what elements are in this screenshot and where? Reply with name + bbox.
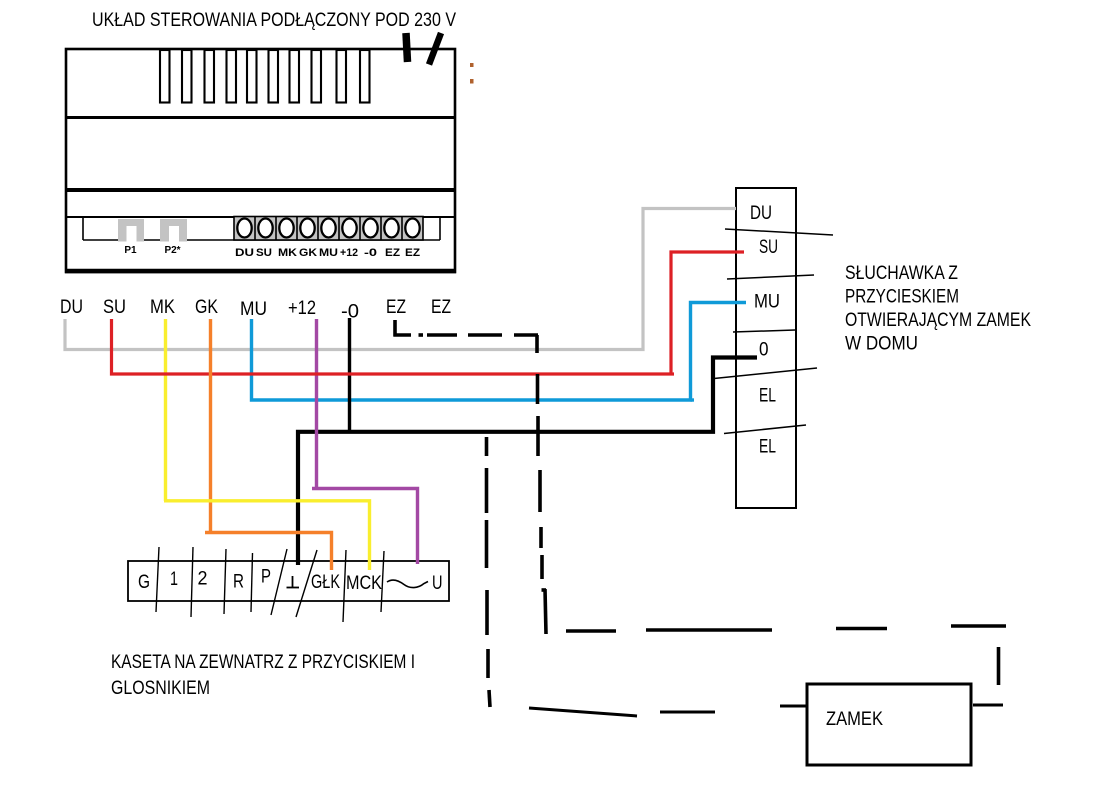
svg-text:0: 0 — [759, 340, 769, 361]
svg-text:SU: SU — [759, 237, 778, 258]
handset divider DU/SU — [725, 229, 833, 235]
terminal pin labels DU SU MK GK MU +12 -0 EZ EZ — [235, 247, 420, 259]
svg-text:GK: GK — [195, 297, 218, 318]
svg-text:EZ: EZ — [405, 247, 420, 259]
svg-text:OTWIERAJĄCYM ZAMEK: OTWIERAJĄCYM ZAMEK — [845, 310, 1031, 331]
svg-text:SU: SU — [103, 297, 126, 318]
svg-text:1: 1 — [170, 569, 178, 590]
control unit U1 outer box — [65, 49, 456, 272]
svg-text:DU: DU — [60, 297, 83, 318]
handset divider SU/MU — [727, 275, 814, 279]
connector P2 tab — [160, 219, 187, 242]
svg-text:-0: -0 — [364, 247, 377, 259]
wire GK orange vertical segment — [209, 319, 212, 534]
handset description text — [845, 263, 1031, 355]
wire MK yellow horizontal run — [164, 501, 370, 570]
ZAMEK lock box — [807, 684, 971, 765]
svg-text:MU: MU — [240, 299, 267, 320]
svg-text:P: P — [261, 567, 271, 588]
kaseta terminal labels — [138, 567, 443, 595]
kaseta divider GLK/MCK — [343, 550, 346, 622]
kaseta divider MCK/~ — [381, 551, 384, 612]
control unit vent slats — [160, 50, 370, 103]
svg-text:DU: DU — [235, 247, 254, 259]
connector P1 tab — [118, 219, 144, 242]
svg-text:PRZYCIESKIEM: PRZYCIESKIEM — [845, 287, 959, 308]
handset terminal box — [736, 188, 796, 508]
svg-text:U: U — [432, 573, 443, 594]
wire SU red — [112, 252, 745, 374]
svg-text:P1: P1 — [124, 245, 137, 256]
wire EZ dash-dot run — [394, 320, 539, 337]
svg-text:GK: GK — [299, 247, 317, 259]
kaseta divider P/gnd — [271, 549, 287, 615]
svg-text:EL: EL — [759, 437, 776, 458]
230V mains stroke N — [429, 33, 441, 65]
ground symbol in kaseta — [287, 576, 300, 588]
kaseta terminal strip box — [128, 561, 449, 601]
wire EZ dashed vertical to ZAMEK — [537, 335, 546, 634]
svg-text:ZAMEK: ZAMEK — [826, 709, 883, 730]
kaseta caption text — [111, 652, 415, 699]
svg-text:GLOSNIKIEM: GLOSNIKIEM — [111, 678, 210, 699]
svg-text:R: R — [233, 572, 244, 593]
svg-text:MU: MU — [754, 292, 780, 313]
svg-text:+12: +12 — [340, 247, 358, 259]
svg-text:MU: MU — [319, 247, 338, 259]
svg-text:G: G — [138, 572, 150, 593]
wire EZ dashed horizontal to ZAMEK right — [566, 626, 1006, 685]
svg-text:DU: DU — [750, 203, 772, 224]
brown colon mark — [470, 63, 474, 84]
terminal strip inset — [83, 217, 440, 240]
wire name labels row — [60, 297, 451, 323]
wire +12 purple — [312, 319, 418, 564]
wire GK orange horizontal run — [205, 533, 332, 571]
wire 0/EL black net — [298, 358, 757, 566]
svg-text:SŁUCHAWKA Z: SŁUCHAWKA Z — [845, 263, 958, 284]
kaseta divider R/P — [251, 553, 253, 612]
wire ZAMEK right lead — [973, 704, 1003, 707]
AC squiggle in kaseta — [387, 580, 428, 588]
wire MU blue — [252, 303, 747, 401]
svg-text:EZ: EZ — [431, 297, 451, 318]
screw terminal block (9 screws) — [234, 217, 423, 241]
wire ZAMEK left lead — [780, 705, 808, 708]
kaseta divider gnd/GLK — [296, 550, 317, 617]
svg-text:MK: MK — [150, 297, 175, 318]
handset divider MU/0 — [733, 330, 795, 332]
kaseta divider G/1 — [156, 547, 159, 612]
control unit inner horizontal line 2 — [67, 188, 454, 192]
svg-text:GŁK: GŁK — [311, 572, 340, 593]
kaseta divider 2/R — [224, 549, 226, 614]
svg-text:EZ: EZ — [385, 247, 400, 259]
svg-text:MK: MK — [278, 247, 297, 259]
svg-text:2: 2 — [198, 569, 208, 590]
wire EZ2 dashed vertical — [487, 437, 491, 707]
handset divider 0/EL — [714, 368, 817, 379]
kaseta divider 1/2 — [191, 547, 193, 617]
wire DU gray — [65, 209, 736, 350]
control unit inner horizontal line 1 — [67, 116, 454, 119]
handset divider EL/EL — [724, 425, 806, 434]
svg-text:SU: SU — [256, 247, 272, 259]
svg-text:W DOMU: W DOMU — [845, 334, 918, 355]
230V mains stroke L — [406, 33, 408, 62]
svg-text:EL: EL — [759, 386, 776, 407]
handset terminal labels — [750, 203, 780, 458]
svg-text:UKŁAD STEROWANIA PODŁĄCZONY PO: UKŁAD STEROWANIA PODŁĄCZONY POD 230 V — [92, 10, 456, 31]
svg-text:KASETA NA ZEWNATRZ Z PRZYCISKI: KASETA NA ZEWNATRZ Z PRZYCISKIEM I — [111, 652, 415, 673]
wire EZ2 dashed horizontal to ZAMEK left — [529, 708, 715, 716]
wire MK yellow vertical segment — [164, 319, 167, 501]
svg-text:P2*: P2* — [164, 245, 180, 256]
svg-text:+12: +12 — [288, 298, 316, 319]
wire -0 black stub — [348, 318, 351, 432]
svg-text:EZ: EZ — [386, 297, 406, 318]
svg-text:MCK: MCK — [346, 573, 382, 594]
control unit inner horizontal line 3 (terminal strip top) — [67, 216, 454, 218]
